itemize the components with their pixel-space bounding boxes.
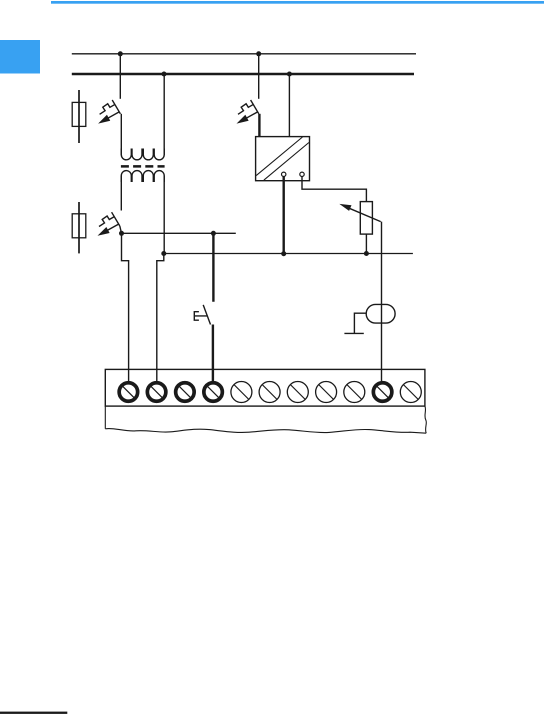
terminal 11 <box>400 382 421 403</box>
wire: resistor bottom to lower line <box>365 234 367 253</box>
power supply output terminal - <box>300 172 304 176</box>
terminal 7 <box>287 382 308 403</box>
bus line N (thin, top) <box>72 53 416 55</box>
transformer T1 primary winding <box>121 149 164 160</box>
wire: PS left output down (heavy) <box>283 177 285 254</box>
wire: N to power supply (via breaker S4) <box>258 54 260 99</box>
power supply U1 box <box>256 137 310 181</box>
terminal 1 (bold) <box>119 383 138 402</box>
resistor R1 arrow <box>339 204 380 222</box>
wire: breaker S2 blade to node <box>120 226 122 233</box>
terminal 5 <box>231 382 252 403</box>
terminal 10 (bold) <box>373 383 392 402</box>
wire: buzzer side to chassis <box>344 313 366 333</box>
bus line L (thick) <box>72 73 414 76</box>
wire: PS right output to resistor <box>302 177 366 202</box>
node: N tap 2 <box>256 51 261 56</box>
power supply U1 diagonal 2 <box>264 143 309 181</box>
terminal 2 (bold) <box>147 383 166 402</box>
terminal 9 <box>344 382 365 403</box>
transformer T1 secondary winding <box>121 171 164 182</box>
wire: lower line to terminal 2 (jog) <box>157 254 164 382</box>
breaker S2 <box>98 212 120 236</box>
power supply output terminal + <box>282 172 286 176</box>
terminal 4 (bold) <box>204 383 223 402</box>
wire: upper horizontal line <box>122 232 236 234</box>
wire: transformer secondary right down <box>163 176 165 254</box>
blue top rule <box>51 1 544 4</box>
terminal block body <box>105 369 425 406</box>
blue sidebar square <box>0 40 40 74</box>
fuse F1 <box>72 90 86 143</box>
wire: L bus to transformer <box>163 74 165 155</box>
resistor R1 (adjustable) <box>360 202 372 235</box>
wire: breaker S1 to transformer <box>120 114 122 155</box>
wire: transformer secondary left to breaker S2 <box>120 176 122 211</box>
breaker S4 <box>237 100 259 124</box>
wire: N bus to breaker S1 <box>119 54 121 99</box>
terminal block torn lower strip <box>105 406 426 433</box>
node: L tap 1 <box>162 72 167 77</box>
node: L tap 2 <box>287 72 292 77</box>
breaker S1 <box>98 100 120 124</box>
buzzer H1 <box>366 304 395 323</box>
wire: switch feed (heavy) <box>212 233 214 301</box>
wire: L bus to power supply box <box>288 74 290 137</box>
terminal 8 <box>316 382 337 403</box>
wire: breaker S4 to power supply box (heavy) <box>258 114 260 137</box>
fuse F2 <box>72 202 86 253</box>
terminal 3 (bold) <box>176 383 195 402</box>
switch S3 blade <box>203 305 210 325</box>
wire: S2 node to terminal 1 (jog) <box>122 233 129 381</box>
node: PS output on lower line <box>281 251 286 256</box>
node: N tap 1 <box>118 51 123 56</box>
node: breaker S2 output <box>119 231 124 236</box>
power supply U1 diagonal 1 <box>256 137 302 176</box>
node: switch tap <box>211 231 216 236</box>
wire: wiper tap down through buzzer to terminal 10 <box>381 222 383 382</box>
terminal 6 <box>259 382 280 403</box>
wire: lower horizontal line <box>164 253 413 255</box>
transformer T1 core (dashed) <box>121 165 165 168</box>
switch S3 manual actuator (E) <box>194 312 207 321</box>
wire: switch to terminal 4 (heavy) <box>212 325 214 382</box>
node: resistor on lower line <box>364 251 369 256</box>
node: secondary right on lower line <box>161 251 166 256</box>
black bottom rule <box>0 712 67 714</box>
